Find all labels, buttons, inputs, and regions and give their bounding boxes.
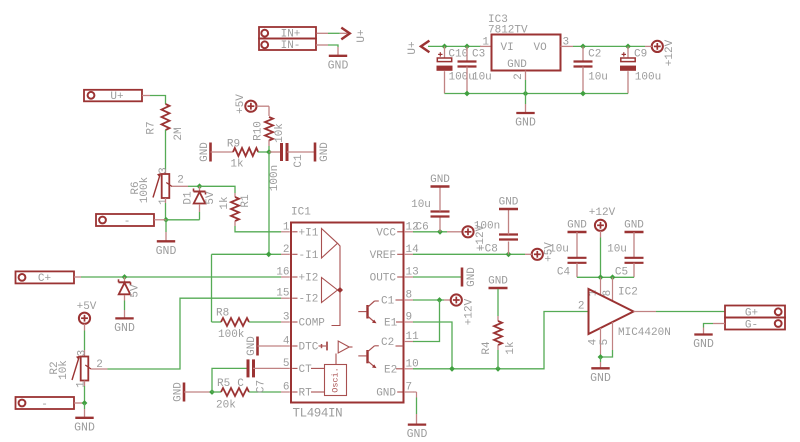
svg-text:C2: C2 — [381, 337, 394, 349]
svg-text:GND: GND — [488, 276, 508, 288]
node dot rail C3 — [464, 44, 470, 50]
svg-text:E2: E2 — [384, 364, 397, 376]
IC1 right pins and labels — [370, 221, 420, 399]
node dot VREF C8 — [506, 251, 512, 257]
capacitor C5 10u — [607, 232, 643, 279]
wire C1 to gnd — [287, 151, 315, 153]
svg-text:GND: GND — [590, 372, 611, 385]
wire VREF pin14 to +5V — [413, 253, 532, 255]
svg-text:16: 16 — [276, 267, 289, 279]
svg-text:MIC4420N: MIC4420N — [618, 327, 671, 339]
op-amp error amp 1 inside IC1 — [322, 229, 338, 259]
capacitor C7 — [237, 359, 267, 393]
svg-text:10u: 10u — [549, 244, 569, 256]
svg-text:2M: 2M — [173, 127, 185, 140]
svg-text:2: 2 — [513, 73, 525, 80]
svg-text:GND: GND — [376, 388, 396, 400]
ground GND below G- — [693, 335, 714, 352]
svg-text:+I2: +I2 — [299, 273, 319, 285]
ground GND for DTC pin4 — [246, 336, 258, 356]
supply +12V above IC2 — [589, 207, 616, 231]
wire R7 to R6 — [165, 130, 167, 174]
resistor R8 100k — [212, 308, 250, 341]
capacitor C6 10u — [411, 188, 449, 234]
svg-text:GND: GND — [328, 59, 349, 72]
ground GND below pin7 — [407, 425, 428, 442]
capacitor C1 100n — [269, 143, 305, 191]
svg-text:100k: 100k — [218, 329, 245, 341]
wire C7 branch — [212, 368, 247, 392]
svg-text:3: 3 — [283, 312, 290, 324]
svg-text:+12V: +12V — [589, 207, 616, 219]
svg-text:5V: 5V — [205, 191, 217, 205]
ground GND left of R9 — [199, 142, 211, 162]
svg-text:TL494IN: TL494IN — [293, 407, 343, 421]
ground GND below D2 — [114, 310, 135, 335]
wire gnd to R9 — [211, 151, 234, 153]
wire IC3 VO to +12V — [561, 45, 652, 47]
wire IN+ to U+ arrow — [317, 32, 348, 34]
svg-text:1: 1 — [158, 198, 170, 205]
node dot IC2 pin8 — [610, 274, 616, 280]
diode D1 zener 5V — [183, 186, 218, 220]
svg-text:C7: C7 — [256, 380, 268, 393]
IC3 box 7812TV — [482, 14, 569, 80]
svg-text:10u: 10u — [588, 72, 608, 84]
svg-text:Osci.: Osci. — [331, 367, 341, 393]
svg-text:GND: GND — [74, 421, 95, 434]
connector X1 pin IN- box — [259, 39, 316, 53]
wire R5 to pin6 — [249, 391, 281, 393]
node dot rail C2 — [580, 44, 586, 50]
svg-text:10k: 10k — [58, 360, 70, 380]
svg-text:10u: 10u — [472, 72, 492, 84]
node dot VCC C6 — [437, 229, 443, 235]
node dot R2 bottom — [82, 400, 88, 406]
svg-text:-I1: -I1 — [299, 250, 319, 262]
svg-text:C2: C2 — [588, 49, 601, 61]
ground GND below R2 — [74, 403, 95, 434]
svg-text:C6: C6 — [416, 222, 429, 234]
connector X2 pin G- box — [725, 318, 785, 332]
node dot pin2 — [266, 251, 272, 257]
svg-text:IN-: IN- — [281, 40, 301, 52]
wire IC2 pins 4 5 — [588, 322, 613, 357]
svg-text:8: 8 — [406, 290, 413, 302]
svg-text:+12V: +12V — [664, 39, 676, 66]
svg-text:10u: 10u — [411, 199, 431, 211]
wire IC2 output — [634, 311, 726, 313]
wire minus node to D1 — [166, 219, 200, 221]
wire IN- to GND — [316, 45, 338, 55]
svg-text:100k: 100k — [139, 176, 151, 203]
svg-text:+5V: +5V — [235, 94, 247, 114]
wire R9 to node — [258, 151, 269, 153]
DTC comparator inside IC1 — [319, 341, 353, 365]
svg-text:1: 1 — [482, 37, 489, 49]
oscillator box inside IC1 — [311, 365, 347, 396]
svg-text:-: - — [41, 399, 48, 411]
wire gnd to R5 — [184, 391, 212, 393]
wire R1 to IC1 pin1 — [235, 221, 281, 232]
svg-text:5: 5 — [283, 358, 290, 370]
IC2 pin2 label — [578, 301, 585, 313]
capacitor C8 100n — [474, 210, 518, 256]
node dot R9 R10 C1 — [266, 149, 272, 155]
svg-text:U+: U+ — [356, 29, 368, 42]
transistor Q2 inside IC1 — [358, 346, 403, 369]
svg-text:D1: D1 — [183, 191, 195, 205]
ground GND below R6 — [156, 220, 177, 258]
wire IC3 GND pin 2 — [525, 71, 527, 94]
svg-text:C3: C3 — [472, 49, 485, 61]
svg-text:R9: R9 — [227, 139, 240, 151]
svg-text:R7: R7 — [146, 121, 158, 134]
svg-text:GND: GND — [173, 382, 185, 402]
svg-text:1k: 1k — [219, 196, 231, 210]
wire R10 to node — [268, 140, 270, 152]
svg-text:VREF: VREF — [370, 250, 396, 262]
wire R6 wiper to node — [172, 185, 200, 187]
wire pin9 down to E2 net — [413, 322, 452, 369]
wire wiper node to R1 — [200, 186, 236, 197]
svg-text:3: 3 — [158, 167, 170, 174]
wire minus terminal to node — [154, 219, 166, 221]
svg-text:+5V: +5V — [77, 301, 97, 313]
svg-text:E1: E1 — [384, 318, 398, 330]
wire G- to GND — [704, 324, 726, 334]
svg-text:+I1: +I1 — [299, 227, 319, 239]
svg-text:DTC: DTC — [299, 342, 319, 354]
svg-text:GND: GND — [624, 220, 644, 232]
svg-text:20k: 20k — [216, 400, 236, 412]
wire R2 pin1 down — [84, 381, 86, 404]
svg-text:GND: GND — [430, 174, 450, 186]
wire gnd to pin4 — [258, 345, 282, 347]
svg-text:U+: U+ — [110, 91, 123, 103]
svg-text:1: 1 — [76, 381, 88, 388]
svg-text:R1: R1 — [240, 194, 252, 208]
wire pin13 to GND — [413, 276, 462, 278]
wire +5V to R2 — [84, 324, 86, 356]
node dot gnd rail C2 — [580, 91, 586, 97]
wire pin8 node to pin11 — [413, 300, 440, 342]
supply +12V at pin8 — [451, 294, 476, 325]
svg-text:IC1: IC1 — [291, 207, 311, 219]
svg-text:8: 8 — [602, 290, 614, 297]
connector X2 pin G+ box — [725, 306, 785, 320]
svg-text:2: 2 — [578, 301, 585, 313]
op-amp error amp 2 inside IC1 — [322, 278, 338, 303]
svg-text:-: - — [124, 216, 131, 228]
svg-text:1k: 1k — [230, 159, 244, 171]
IC1 left pins and labels — [276, 221, 325, 399]
terminal U+ — [84, 90, 142, 103]
wire U+ rail to IC3 VI — [428, 45, 492, 47]
wire IC3 ground rail — [445, 93, 629, 95]
wire pin8 to +12V — [413, 299, 451, 301]
transistor Q1 inside IC1 — [358, 300, 403, 323]
ground GND below IN- — [328, 56, 349, 73]
svg-text:IC2: IC2 — [618, 287, 638, 299]
svg-text:C: C — [237, 378, 244, 390]
svg-text:+C8: +C8 — [478, 244, 498, 256]
capacitor C10 100u — [437, 46, 475, 93]
wire E2 net pin10 — [413, 312, 588, 369]
ground GND above C6 — [430, 174, 450, 187]
svg-text:5: 5 — [599, 339, 611, 346]
node dot IC2 gnd — [598, 354, 604, 360]
wire +12V to IC2 rail — [600, 231, 602, 277]
wire IC2 top rail — [577, 276, 634, 278]
svg-text:GND: GND — [499, 197, 519, 209]
terminal minus (-) upper — [96, 214, 154, 228]
supply +5V near R10 — [235, 94, 257, 114]
ground GND below IC3 — [515, 94, 536, 130]
capacitor C9 100u — [620, 46, 661, 93]
svg-text:7812TV: 7812TV — [488, 25, 528, 37]
svg-text:4: 4 — [588, 338, 600, 345]
op-amp IC1 box — [291, 207, 404, 421]
node dot rail C10 — [442, 44, 448, 50]
wire minus to R2 node — [74, 402, 85, 404]
svg-text:G-: G- — [745, 319, 758, 331]
wire pin2 to COMP R8 — [211, 254, 213, 322]
svg-text:R5: R5 — [217, 378, 230, 390]
supply +5V above R2 — [77, 301, 97, 324]
svg-text:RT: RT — [299, 388, 313, 400]
wire C+ to IC1 pin16 — [74, 276, 281, 278]
supply U+ arrow (left) at IC3 input — [407, 41, 429, 55]
wire +5V to R10 — [257, 106, 270, 116]
node dot pin8 — [437, 297, 443, 303]
svg-text:C+: C+ — [38, 273, 51, 285]
svg-text:+12V: +12V — [464, 298, 476, 325]
svg-text:100u: 100u — [635, 72, 661, 84]
svg-text:GND: GND — [567, 220, 587, 232]
node dot R4 E2 — [495, 366, 501, 372]
wire pin2 net — [212, 253, 282, 255]
svg-text:GND: GND — [319, 142, 331, 162]
capacitor C2 10u — [574, 46, 608, 93]
ground GND above R4 — [488, 276, 508, 289]
svg-text:GND: GND — [246, 336, 258, 356]
svg-text:3: 3 — [76, 350, 88, 357]
wire VCC pin12 to +12V — [413, 231, 462, 233]
connector X1 pin IN+ box — [259, 27, 316, 40]
ground GND below IC2 — [590, 357, 611, 385]
node dot E1 E2 — [449, 366, 455, 372]
svg-text:C1: C1 — [293, 154, 305, 168]
node dot minus net — [163, 217, 169, 223]
svg-text:2: 2 — [283, 244, 290, 256]
wire C7 to pin5 — [253, 367, 281, 369]
node dot R6 wiper D1 — [197, 183, 203, 189]
svg-text:1: 1 — [283, 221, 290, 233]
svg-text:100n: 100n — [474, 221, 500, 233]
ground GND left of R5 — [173, 382, 185, 402]
ground GND above C8 — [499, 197, 519, 210]
svg-text:GND: GND — [407, 428, 428, 441]
svg-text:VI: VI — [501, 42, 514, 54]
svg-text:C9: C9 — [634, 49, 647, 61]
svg-text:OUTC: OUTC — [370, 273, 397, 285]
trimmer R6 100k — [130, 167, 184, 205]
ground GND above C5 — [624, 220, 644, 233]
svg-text:GND: GND — [156, 245, 177, 258]
wire node to C1 — [269, 151, 281, 153]
wire U+ to R7 — [142, 96, 166, 105]
resistor R1 1k — [219, 194, 252, 221]
supply U+ arrow (right) — [341, 28, 368, 43]
wire pin7 to GND — [413, 392, 417, 424]
svg-text:VO: VO — [534, 42, 548, 54]
op-amp IC2 triangle — [589, 287, 671, 340]
svg-text:U+: U+ — [407, 41, 419, 54]
wire IC2 pin1 pin8 — [588, 277, 615, 301]
svg-text:10u: 10u — [607, 244, 627, 256]
node dot gnd rail C3 — [464, 91, 470, 97]
svg-text:R10: R10 — [253, 121, 265, 141]
svg-text:-I2: -I2 — [299, 294, 319, 306]
wire R6 pin1 to minus node — [165, 198, 167, 220]
svg-text:7: 7 — [406, 382, 413, 394]
svg-text:GND: GND — [693, 338, 714, 351]
svg-text:100n: 100n — [269, 165, 281, 191]
svg-text:GND: GND — [507, 59, 527, 71]
node dot IC2 pin1 — [598, 274, 604, 280]
svg-text:VCC: VCC — [376, 227, 396, 239]
svg-text:GND: GND — [466, 267, 478, 287]
resistor R4 1k — [481, 289, 517, 369]
svg-text:CT: CT — [299, 364, 313, 376]
svg-text:R8: R8 — [216, 308, 229, 320]
svg-text:5V: 5V — [130, 284, 142, 298]
ground GND at pin13 — [462, 267, 478, 287]
resistor R5 20k — [212, 378, 249, 412]
svg-text:6: 6 — [283, 382, 290, 394]
supply +12V at IC3 output — [651, 39, 676, 66]
svg-text:15: 15 — [276, 288, 289, 300]
internal feedback line to COMP — [332, 243, 344, 325]
wire R2 wiper to pin15 — [91, 298, 281, 369]
terminal C+ — [16, 271, 75, 284]
svg-text:4: 4 — [283, 336, 290, 348]
svg-text:R4: R4 — [481, 341, 493, 355]
capacitor C4 10u — [549, 232, 586, 279]
capacitor C3 10u — [458, 46, 492, 93]
node dot rail C9 — [625, 44, 631, 50]
resistor R10 10k — [253, 117, 287, 143]
resistor R7 2M — [146, 104, 186, 141]
svg-text:C4: C4 — [557, 267, 571, 279]
supply +12V at VCC — [462, 224, 487, 251]
svg-text:C1: C1 — [381, 296, 395, 308]
svg-text:GND: GND — [515, 117, 536, 130]
supply +5V at VREF — [531, 242, 556, 262]
wire node down to pin2 node — [268, 152, 270, 254]
svg-text:1k: 1k — [505, 341, 517, 355]
svg-text:9: 9 — [406, 312, 413, 324]
node dot R5 C7 — [209, 389, 215, 395]
svg-text:100u: 100u — [448, 72, 474, 84]
svg-text:COMP: COMP — [299, 318, 326, 330]
svg-text:GND: GND — [114, 322, 135, 335]
trimmer R2 10k — [49, 350, 103, 388]
svg-text:10k: 10k — [274, 123, 286, 143]
diode D2 zener 5V — [119, 277, 142, 310]
ground GND right of C1 — [315, 142, 331, 162]
ground GND above C4 — [567, 220, 587, 233]
svg-text:2: 2 — [177, 175, 184, 187]
svg-text:GND: GND — [199, 142, 211, 162]
node dot gnd rail IC3 — [523, 91, 529, 97]
resistor R9 1k — [227, 139, 258, 171]
terminal minus (-) lower — [16, 397, 75, 411]
wire R8 to pin3 — [249, 321, 281, 323]
svg-text:C10: C10 — [448, 49, 468, 61]
node dot C+ zener — [122, 274, 128, 280]
